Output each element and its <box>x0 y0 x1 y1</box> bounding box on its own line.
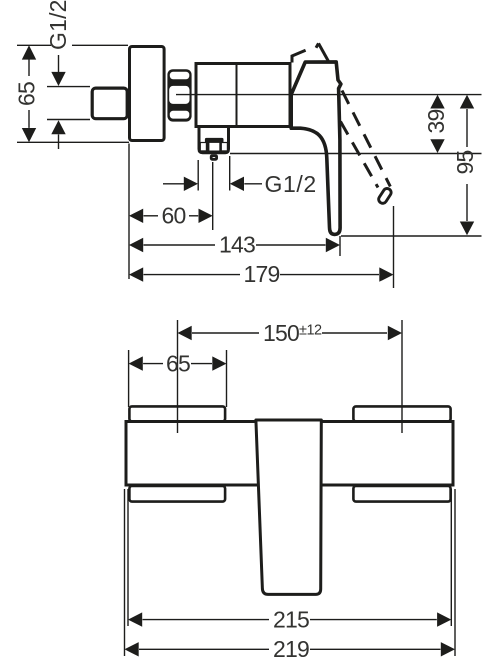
G1/2 inlet nipple <box>92 88 127 119</box>
G1/2 up arrow (below nipple) <box>51 120 65 134</box>
outlet bottom extension line (long) <box>230 153 482 155</box>
escutcheon top extension line <box>17 44 51 46</box>
svg-text:65: 65 <box>166 350 190 376</box>
G1/2 down arrow <box>51 72 65 86</box>
lever tip extension line (long) <box>341 235 482 237</box>
143 dimension <box>129 238 143 252</box>
150±12 dimension <box>177 320 179 433</box>
outlet nipple <box>211 156 216 160</box>
top-left wall union flange <box>129 406 225 421</box>
outlet union crown raised bar <box>205 138 224 143</box>
95 dimension (vertical, far right) <box>460 95 474 109</box>
nipple top extension line <box>47 86 90 88</box>
G1/2 outlet dimension <box>163 183 184 185</box>
179 dimension <box>129 267 143 281</box>
wall plane extension line <box>128 144 130 280</box>
axis centerline <box>176 94 482 96</box>
svg-text:G1/2: G1/2 <box>45 0 71 50</box>
lowered handle tip capsule <box>377 187 392 205</box>
svg-text:143: 143 <box>219 232 255 258</box>
svg-text:219: 219 <box>273 636 309 662</box>
outlet union crown band <box>200 142 228 153</box>
top-right wall union flange <box>353 406 450 421</box>
65 dimension (bottom view) <box>128 350 130 407</box>
body internal vertical line <box>236 64 238 127</box>
G1/2 up arrow tail <box>58 134 60 149</box>
65 dimension (left, vertical) <box>22 45 36 59</box>
outlet union crown center window <box>209 143 219 151</box>
lowered handle position dashed line right <box>342 91 390 187</box>
outlet axis extension line <box>212 162 214 230</box>
bottom-right wall union flange <box>353 486 450 502</box>
outlet left extension line <box>197 160 199 191</box>
lever handle (solid position) <box>291 62 341 235</box>
215 dimension <box>127 489 129 626</box>
svg-text:G1/2: G1/2 <box>265 171 317 197</box>
nipple bottom extension line <box>47 119 90 121</box>
mixer body bar (front) <box>126 422 453 486</box>
handle (front) <box>256 420 321 594</box>
hex nut N1 <box>167 69 191 121</box>
nut middle facet window <box>169 86 189 104</box>
nut bottom facet window <box>170 111 190 119</box>
60 dimension <box>129 209 143 223</box>
outlet union crown left window <box>201 143 206 150</box>
svg-text:179: 179 <box>244 261 280 287</box>
svg-text:150±12: 150±12 <box>263 320 322 346</box>
svg-text:60: 60 <box>162 202 186 228</box>
219 dimension <box>124 489 126 656</box>
outlet right extension line <box>229 156 231 191</box>
bottom-left wall union flange <box>129 486 225 502</box>
179 right extension line <box>393 206 395 288</box>
mixer body <box>196 64 290 127</box>
svg-text:65: 65 <box>13 82 39 106</box>
outlet union crown right window <box>222 143 227 150</box>
143 right extension line <box>339 236 341 256</box>
39 dimension (vertical, right) <box>430 95 444 109</box>
svg-text:95: 95 <box>452 151 478 175</box>
raised handle position (thin outline above body) <box>292 50 306 62</box>
G1/2 top leader line <box>58 55 60 73</box>
svg-text:215: 215 <box>273 606 309 632</box>
escutcheon (wall plate, side) <box>130 47 165 141</box>
lowered handle position dashed line left <box>341 122 379 188</box>
svg-text:39: 39 <box>423 110 449 134</box>
escutcheon bottom extension line <box>17 141 129 143</box>
nut top facet window <box>170 72 190 79</box>
shower outlet housing <box>199 128 229 153</box>
